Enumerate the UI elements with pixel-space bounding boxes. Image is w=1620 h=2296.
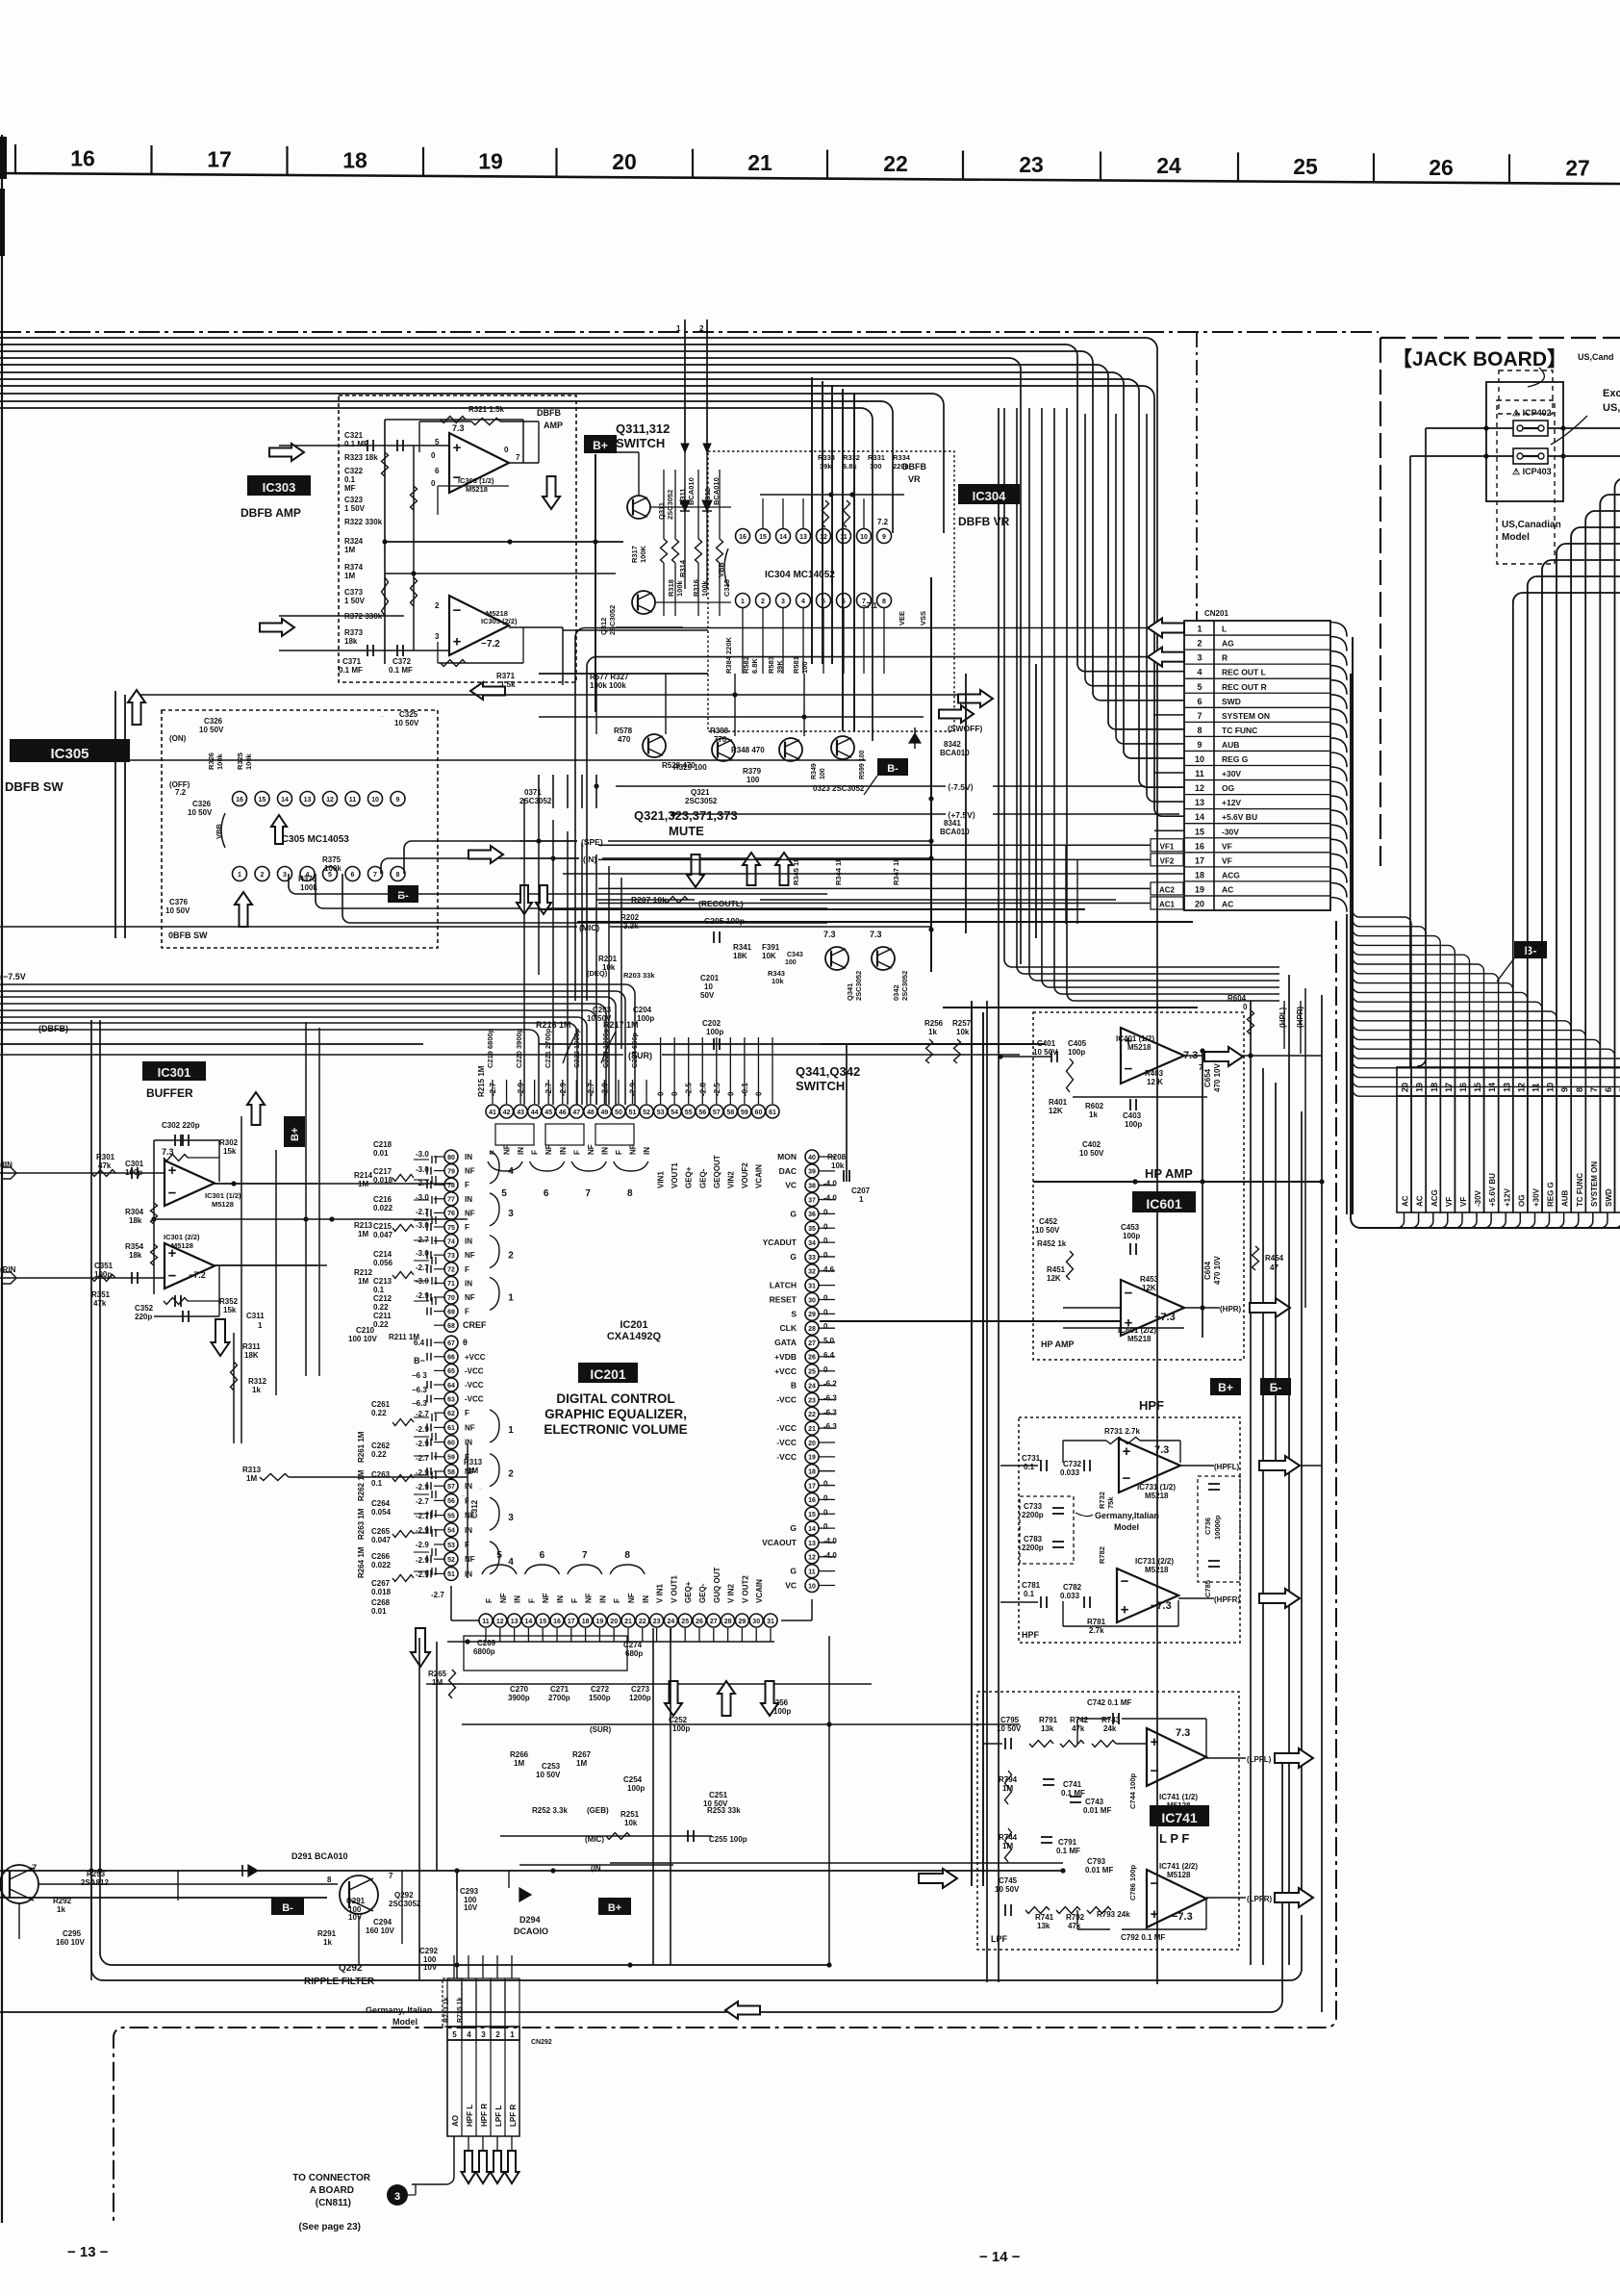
svg-text:0.22: 0.22 (373, 1303, 389, 1312)
svg-text:15k: 15k (223, 1306, 237, 1314)
svg-text:-3.0: -3.0 (416, 1249, 429, 1258)
svg-text:(CN811): (CN811) (316, 2198, 351, 2208)
svg-text:-6.3: -6.3 (823, 1393, 837, 1402)
svg-text:160 10V: 160 10V (56, 1938, 85, 1947)
svg-text:【JACK BOARD】: 【JACK BOARD】 (1392, 348, 1567, 370)
svg-text:18K: 18K (244, 1351, 259, 1360)
svg-text:470 10V: 470 10V (1213, 1256, 1222, 1285)
svg-text:5: 5 (501, 1188, 507, 1199)
svg-text:C262: C262 (371, 1441, 391, 1450)
svg-text:55: 55 (447, 1513, 455, 1519)
svg-text:-3.0: -3.0 (416, 1150, 429, 1159)
svg-text:NF: NF (627, 1593, 636, 1603)
svg-text:0: 0 (823, 1308, 828, 1316)
svg-text:10: 10 (808, 1583, 816, 1590)
svg-text:NF: NF (499, 1593, 508, 1603)
svg-text:8: 8 (627, 1188, 633, 1199)
svg-text:NF: NF (465, 1209, 475, 1217)
svg-text:G: G (790, 1209, 797, 1218)
svg-text:B-: B- (282, 1902, 293, 1914)
svg-text:10: 10 (1546, 1083, 1556, 1092)
svg-text:R732: R732 (1098, 1492, 1106, 1509)
svg-text:20: 20 (610, 1619, 618, 1625)
svg-text:4: 4 (801, 599, 805, 605)
svg-text:REG G: REG G (1547, 1182, 1556, 1207)
svg-text:+: + (168, 1162, 177, 1179)
svg-text:+30V: +30V (1222, 769, 1241, 778)
svg-text:3900p: 3900p (508, 1694, 530, 1702)
svg-text:IN: IN (465, 1279, 472, 1288)
svg-text:F: F (531, 1150, 540, 1155)
svg-text:36: 36 (808, 1212, 816, 1218)
svg-text:⟨-7.5V⟩: ⟨-7.5V⟩ (948, 782, 974, 792)
svg-text:NF: NF (465, 1251, 475, 1260)
svg-text:C293: C293 (460, 1887, 479, 1896)
svg-text:16: 16 (553, 1619, 561, 1625)
svg-text:+: + (1123, 1443, 1131, 1460)
svg-text:Q312: Q312 (599, 618, 608, 635)
svg-text:R201: R201 (598, 955, 618, 963)
svg-text:7: 7 (582, 1550, 588, 1561)
svg-text:−6 3: −6 3 (412, 1371, 427, 1380)
svg-text:NF: NF (465, 1167, 475, 1176)
svg-text:C294: C294 (373, 1918, 392, 1926)
svg-text:0.22: 0.22 (373, 1320, 389, 1329)
svg-text:Model: Model (392, 2017, 418, 2027)
svg-text:Q321: Q321 (691, 788, 710, 797)
svg-text:NF: NF (629, 1144, 638, 1155)
svg-text:16: 16 (808, 1497, 816, 1504)
svg-text:NF: NF (544, 1144, 553, 1155)
svg-text:(SUR): (SUR) (590, 1725, 612, 1734)
svg-text:C213: C213 (373, 1277, 392, 1286)
svg-text:15k: 15k (223, 1147, 237, 1156)
svg-text:10 50V: 10 50V (165, 906, 190, 915)
svg-text:C402: C402 (1082, 1140, 1101, 1149)
svg-text:14: 14 (1487, 1083, 1497, 1092)
svg-text:-4.0: -4.0 (823, 1551, 837, 1560)
svg-text:21: 21 (747, 150, 772, 175)
svg-text:IC731 (1/2): IC731 (1/2) (1137, 1483, 1176, 1492)
svg-text:R325: R325 (236, 753, 244, 770)
svg-text:−7.3: −7.3 (1151, 1600, 1172, 1612)
svg-text:M5128: M5128 (1167, 1871, 1191, 1879)
svg-text:HPF R: HPF R (480, 2104, 489, 2127)
svg-text:HP AMP: HP AMP (1145, 1166, 1193, 1181)
svg-text:15: 15 (1195, 827, 1204, 836)
svg-text:0.1: 0.1 (371, 1479, 383, 1488)
svg-text:70: 70 (447, 1295, 455, 1302)
svg-text:13: 13 (799, 534, 807, 541)
svg-text:R202: R202 (620, 913, 640, 922)
svg-text:VOUF2: VOUF2 (741, 1162, 749, 1188)
svg-text:M5218: M5218 (1127, 1335, 1152, 1343)
svg-text:-2.9: -2.9 (416, 1526, 429, 1535)
svg-text:R212: R212 (354, 1268, 373, 1277)
svg-text:C732: C732 (1063, 1460, 1082, 1468)
svg-text:IN: IN (517, 1147, 525, 1155)
svg-text:(DBFB): (DBFB) (38, 1024, 68, 1033)
svg-text:0: 0 (823, 1522, 828, 1531)
svg-text:0.01: 0.01 (373, 1149, 389, 1158)
svg-text:0.1: 0.1 (1024, 1463, 1035, 1471)
svg-text:3: 3 (781, 599, 785, 605)
svg-text:C791: C791 (1058, 1838, 1077, 1847)
svg-text:C785: C785 (1203, 1580, 1212, 1597)
svg-text:100p: 100p (1125, 1120, 1142, 1129)
svg-text:Germany, Italian: Germany, Italian (366, 2005, 432, 2015)
svg-text:R743: R743 (1101, 1716, 1121, 1724)
svg-text:1 50V: 1 50V (344, 504, 366, 513)
svg-text:0: 0 (823, 1480, 828, 1489)
svg-text:2: 2 (495, 2030, 500, 2039)
svg-text:680p: 680p (625, 1649, 643, 1658)
svg-text:R781: R781 (1087, 1618, 1106, 1626)
svg-text:0: 0 (823, 1322, 828, 1331)
svg-text:VIN1: VIN1 (657, 1171, 666, 1188)
svg-text:11: 11 (840, 534, 848, 541)
svg-text:C218: C218 (373, 1140, 392, 1149)
svg-text:−7: −7 (27, 1863, 37, 1873)
svg-text:R452 1k: R452 1k (1037, 1239, 1067, 1248)
svg-text:470: 470 (618, 735, 631, 744)
svg-text:R304: R304 (125, 1208, 144, 1216)
svg-text:CN292: CN292 (531, 2039, 552, 2046)
svg-text:18: 18 (1195, 870, 1204, 880)
svg-text:100k 100k: 100k 100k (590, 681, 626, 690)
svg-text:2: 2 (508, 1251, 514, 1262)
svg-text:37: 37 (808, 1197, 816, 1204)
svg-text:− 13 −: − 13 − (67, 2244, 109, 2260)
svg-text:0BFB SW: 0BFB SW (168, 931, 208, 940)
svg-text:0.033: 0.033 (1060, 1468, 1080, 1477)
svg-text:-2.9: -2.9 (416, 1556, 429, 1565)
svg-text:20: 20 (1401, 1083, 1410, 1092)
svg-text:IC303: IC303 (263, 480, 296, 495)
svg-text:R376: R376 (298, 875, 317, 883)
svg-text:F: F (572, 1150, 581, 1155)
svg-text:V IN1: V IN1 (656, 1583, 665, 1603)
svg-text:-VCC: -VCC (776, 1438, 797, 1447)
svg-text:B−: B− (414, 1356, 425, 1365)
svg-text:47k: 47k (98, 1161, 112, 1170)
svg-text:−6.3: −6.3 (412, 1399, 427, 1408)
svg-text:31: 31 (808, 1283, 816, 1289)
svg-text:DBFB SW: DBFB SW (5, 779, 63, 794)
svg-text:50V: 50V (700, 991, 715, 1000)
svg-text:2SC3052: 2SC3052 (389, 1900, 421, 1908)
svg-text:(HPL): (HPL) (1278, 1007, 1287, 1028)
svg-text:26: 26 (696, 1619, 703, 1625)
svg-text:MUTE: MUTE (669, 824, 704, 838)
svg-text:3: 3 (508, 1209, 514, 1219)
svg-text:US,: US, (1603, 402, 1620, 414)
svg-text:R583: R583 (767, 656, 775, 674)
svg-text:L P F: L P F (1159, 1831, 1189, 1846)
svg-text:21: 21 (624, 1619, 632, 1625)
svg-text:1k: 1k (928, 1028, 937, 1036)
svg-text:C743: C743 (1085, 1798, 1104, 1806)
svg-text:57: 57 (713, 1110, 721, 1116)
svg-text:17: 17 (568, 1619, 575, 1625)
svg-text:(ON): (ON) (169, 734, 187, 743)
svg-text:-2.7: -2.7 (416, 1263, 429, 1272)
svg-text:B+: B+ (290, 1128, 301, 1141)
svg-text:160 10V: 160 10V (366, 1926, 394, 1935)
svg-text:2: 2 (699, 324, 704, 333)
svg-text:SYSTEM ON: SYSTEM ON (1222, 711, 1270, 721)
svg-text:R741: R741 (1035, 1913, 1054, 1922)
svg-text:10 50V: 10 50V (536, 1771, 561, 1779)
svg-text:47k: 47k (1072, 1724, 1085, 1733)
svg-text:MON: MON (777, 1152, 797, 1161)
svg-text:IN: IN (559, 1147, 568, 1155)
svg-text:(HPFR): (HPFR) (1214, 1595, 1240, 1604)
svg-text:F: F (465, 1265, 469, 1274)
svg-text:C302 220p: C302 220p (162, 1121, 200, 1130)
svg-text:B-: B- (1525, 944, 1537, 957)
svg-text:2SA812: 2SA812 (81, 1878, 109, 1887)
svg-text:VR: VR (908, 474, 921, 484)
svg-text:IC304: IC304 (973, 489, 1006, 503)
svg-text:C736: C736 (1203, 1518, 1212, 1535)
svg-text:IC201: IC201 (620, 1319, 647, 1331)
svg-text:−: − (1125, 1286, 1133, 1302)
svg-text:IN: IN (600, 1147, 609, 1155)
svg-text:14: 14 (281, 797, 289, 804)
svg-text:10 50V: 10 50V (995, 1885, 1020, 1894)
svg-text:R322 330k: R322 330k (344, 518, 383, 526)
svg-text:24k: 24k (1103, 1724, 1117, 1733)
svg-text:HPF: HPF (1022, 1630, 1040, 1640)
svg-text:13: 13 (511, 1619, 519, 1625)
svg-text:1: 1 (258, 1321, 263, 1330)
svg-text:D294: D294 (519, 1915, 541, 1925)
svg-text:100: 100 (870, 462, 882, 471)
svg-text:R398: R398 (710, 727, 729, 735)
svg-text:-4.0: -4.0 (823, 1194, 837, 1203)
svg-text:0.054: 0.054 (371, 1508, 392, 1517)
svg-text:49: 49 (601, 1110, 609, 1116)
svg-text:59: 59 (447, 1455, 455, 1462)
svg-text:0: 0 (431, 451, 436, 460)
svg-text:C783: C783 (1024, 1535, 1043, 1543)
svg-text:R313: R313 (242, 1466, 262, 1474)
svg-text:17: 17 (1195, 855, 1204, 865)
svg-text:-VCC: -VCC (776, 1423, 797, 1433)
svg-text:C254: C254 (623, 1775, 643, 1784)
svg-text:R: R (1222, 653, 1228, 663)
svg-text:VC: VC (785, 1581, 797, 1591)
svg-text:−: − (1121, 1573, 1129, 1590)
svg-text:IN: IN (598, 1595, 607, 1603)
svg-text:(GEB): (GEB) (587, 1806, 609, 1815)
svg-text:6.4: 6.4 (414, 1339, 425, 1347)
svg-text:74: 74 (447, 1238, 455, 1245)
svg-text:SWITCH: SWITCH (796, 1079, 845, 1093)
svg-text:10k: 10k (831, 1161, 845, 1170)
svg-text:F391: F391 (762, 943, 780, 952)
svg-text:100k: 100k (675, 579, 684, 597)
svg-text:R331: R331 (868, 453, 885, 462)
svg-text:67: 67 (447, 1340, 455, 1347)
svg-text:1: 1 (859, 1195, 864, 1204)
svg-text:C221 2700p: C221 2700p (544, 1028, 552, 1068)
svg-text:8: 8 (1575, 1087, 1584, 1092)
svg-text:0.01 MF: 0.01 MF (1085, 1866, 1113, 1875)
svg-text:1M: 1M (358, 1277, 368, 1286)
svg-text:TC FUNC: TC FUNC (1576, 1173, 1584, 1207)
svg-text:16: 16 (236, 797, 243, 804)
svg-text:AO: AO (451, 2115, 460, 2127)
svg-text:1200p: 1200p (629, 1694, 651, 1702)
svg-text:VBB: VBB (215, 824, 223, 839)
svg-text:52: 52 (447, 1557, 455, 1564)
svg-text:3: 3 (481, 2030, 486, 2039)
svg-text:80: 80 (447, 1155, 455, 1161)
svg-text:AMP: AMP (544, 421, 563, 430)
svg-text:13: 13 (1195, 798, 1204, 807)
svg-text:25: 25 (1293, 154, 1318, 179)
svg-text:REC OUT L: REC OUT L (1222, 668, 1266, 677)
svg-text:TC FUNC: TC FUNC (1222, 726, 1257, 735)
svg-text:RESET: RESET (770, 1295, 797, 1305)
svg-text:24: 24 (1156, 153, 1181, 178)
svg-text:G: G (790, 1567, 797, 1576)
svg-text:73: 73 (447, 1253, 455, 1260)
svg-text:(−7.5V: (−7.5V (0, 972, 26, 982)
svg-text:+5.6V BU: +5.6V BU (1488, 1173, 1497, 1207)
svg-text:ACG: ACG (1222, 870, 1240, 880)
svg-text:C216: C216 (373, 1195, 392, 1204)
svg-text:0.1 MF: 0.1 MF (1056, 1847, 1080, 1855)
svg-text:30: 30 (752, 1619, 760, 1625)
svg-text:100: 100 (785, 959, 797, 966)
svg-text:10000p: 10000p (1213, 1515, 1222, 1540)
svg-text:64: 64 (447, 1383, 455, 1390)
svg-text:20: 20 (612, 149, 637, 174)
svg-text:(SUR): (SUR) (628, 1051, 652, 1060)
svg-text:IC303 (1/2): IC303 (1/2) (458, 476, 494, 485)
svg-text:48: 48 (587, 1110, 595, 1116)
svg-text:15: 15 (808, 1512, 816, 1518)
svg-text:IN: IN (643, 1147, 651, 1155)
svg-text:1: 1 (508, 1425, 514, 1436)
svg-text:6.8K: 6.8K (750, 658, 759, 674)
svg-text:16: 16 (70, 146, 95, 171)
svg-text:100: 100 (747, 776, 760, 784)
svg-text:R323 18k: R323 18k (344, 453, 378, 462)
svg-text:22: 22 (808, 1412, 816, 1418)
svg-text:100p: 100p (1123, 1232, 1140, 1240)
svg-text:⚠ ICP403: ⚠ ICP403 (1512, 467, 1552, 476)
svg-text:100p: 100p (637, 1014, 654, 1023)
svg-text:12: 12 (1195, 783, 1204, 793)
svg-text:R351: R351 (91, 1290, 111, 1299)
svg-text:C325: C325 (399, 710, 418, 719)
svg-text:8: 8 (327, 1875, 332, 1884)
svg-text:+12V: +12V (1503, 1187, 1511, 1207)
svg-text:VOUT1: VOUT1 (671, 1162, 679, 1188)
svg-text:0: 0 (823, 1237, 828, 1245)
svg-text:VCAIN: VCAIN (754, 1164, 763, 1188)
svg-text:4: 4 (508, 1166, 514, 1177)
svg-text:⚠ ICP402: ⚠ ICP402 (1512, 408, 1552, 418)
svg-text:C301: C301 (125, 1160, 144, 1168)
svg-text:17: 17 (207, 146, 232, 171)
svg-text:2200p: 2200p (1022, 1543, 1044, 1552)
svg-text:7: 7 (1197, 711, 1202, 721)
svg-text:51: 51 (629, 1110, 637, 1116)
svg-text:6: 6 (1604, 1087, 1613, 1092)
svg-text:62: 62 (447, 1411, 455, 1417)
svg-text:R578: R578 (614, 727, 633, 735)
svg-text:6: 6 (435, 467, 440, 475)
svg-text:29: 29 (808, 1312, 816, 1318)
svg-text:3: 3 (283, 872, 287, 879)
svg-text:−: − (1123, 1470, 1131, 1487)
svg-text:C202: C202 (702, 1019, 721, 1028)
svg-text:C781: C781 (1022, 1581, 1041, 1590)
svg-text:18k: 18k (344, 637, 358, 646)
svg-text:DIGITAL CONTROL: DIGITAL CONTROL (556, 1391, 674, 1406)
svg-text:C311: C311 (246, 1312, 265, 1320)
svg-text:IC201: IC201 (590, 1366, 626, 1382)
svg-text:79: 79 (447, 1168, 455, 1175)
svg-text:F: F (465, 1181, 469, 1189)
svg-text:18: 18 (342, 147, 367, 172)
svg-text:C782: C782 (1063, 1583, 1082, 1592)
svg-text:0: 0 (823, 1493, 828, 1502)
svg-text:0.022: 0.022 (373, 1204, 393, 1212)
svg-text:SWD: SWD (1605, 1188, 1613, 1207)
svg-text:25: 25 (808, 1369, 816, 1376)
svg-text:C215: C215 (373, 1222, 392, 1231)
svg-text:R453: R453 (1140, 1275, 1159, 1284)
svg-text:IN: IN (514, 1595, 522, 1603)
svg-text:100k: 100k (324, 864, 342, 873)
svg-text:−7.2: −7.2 (189, 1270, 206, 1280)
svg-text:C654: C654 (1203, 1068, 1212, 1087)
svg-text:AC: AC (1416, 1195, 1425, 1207)
svg-text:C745: C745 (999, 1876, 1018, 1885)
svg-text:−6.3: −6.3 (412, 1386, 427, 1394)
svg-text:1k: 1k (57, 1905, 65, 1914)
svg-text:Q311,312: Q311,312 (616, 421, 670, 436)
svg-text:C251: C251 (709, 1791, 728, 1799)
svg-text:12: 12 (820, 534, 827, 541)
svg-text:G: G (790, 1523, 797, 1533)
svg-text:19: 19 (478, 148, 503, 173)
svg-text:C265: C265 (371, 1527, 391, 1536)
svg-text:C269: C269 (477, 1639, 496, 1647)
svg-text:C351: C351 (94, 1262, 114, 1270)
svg-text:C373: C373 (344, 588, 364, 597)
svg-text:-2.7: -2.7 (431, 1591, 444, 1599)
svg-text:12: 12 (326, 797, 334, 804)
svg-text:7: 7 (373, 872, 377, 879)
svg-text:13k: 13k (1041, 1724, 1054, 1733)
svg-text:VF2: VF2 (1160, 856, 1175, 865)
svg-text:R344 1k: R344 1k (834, 857, 843, 885)
svg-text:2SC3052: 2SC3052 (608, 605, 617, 635)
svg-text:28: 28 (724, 1619, 732, 1625)
svg-text:D291 BCA010: D291 BCA010 (291, 1851, 348, 1861)
svg-text:R291: R291 (317, 1929, 337, 1938)
svg-text:1M: 1M (576, 1759, 587, 1768)
svg-text:F: F (527, 1598, 536, 1603)
svg-text:100K: 100K (639, 545, 647, 563)
